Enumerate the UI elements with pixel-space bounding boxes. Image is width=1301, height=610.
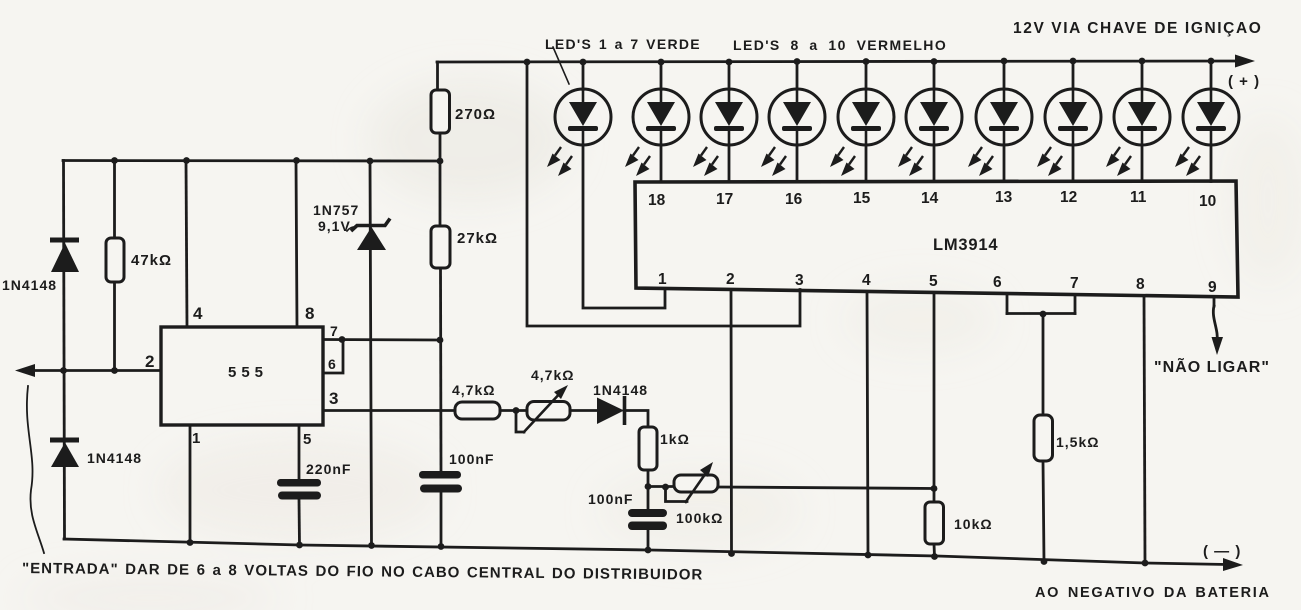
svg-text:4: 4: [193, 304, 203, 323]
node 4,7k junction: [513, 407, 520, 414]
svg-text:3: 3: [329, 389, 338, 408]
LED D1: [547, 89, 611, 176]
node rail pin4: [865, 552, 872, 559]
trimpot 100k: [674, 462, 718, 503]
svg-text:100kΩ: 100kΩ: [676, 510, 723, 526]
svg-text:270Ω: 270Ω: [455, 106, 496, 123]
svg-text:AO NEGATIVO DA BATERIA: AO NEGATIVO DA BATERIA: [1035, 585, 1271, 601]
svg-text:9: 9: [1208, 279, 1217, 296]
node 100k wiper: [662, 484, 669, 491]
wire LM3914 pin2 to ground rail: [730, 290, 733, 554]
node pin9 arrowhead: [1212, 337, 1224, 355]
wire 9,1V label pointer: [347, 226, 357, 231]
wire bottom ground rail: [64, 539, 1226, 565]
wire 555 pin1 down: [189, 425, 192, 543]
svg-text:1: 1: [658, 271, 667, 288]
svg-text:4,7kΩ: 4,7kΩ: [452, 382, 495, 398]
wire LM3914 pin7 stub: [1074, 295, 1077, 314]
svg-text:18: 18: [648, 192, 666, 209]
wire zener branch x=370: [370, 161, 372, 545]
capacitor 100nF left: [419, 471, 462, 493]
resistor 4,7k fixed: [455, 402, 500, 419]
node bottom rail arrow (-): [1223, 558, 1243, 571]
svg-text:"NÃO LIGAR": "NÃO LIGAR": [1154, 356, 1270, 376]
node top rail arrow (+): [1235, 55, 1255, 68]
wire 270 to 27k: [439, 133, 442, 226]
node rail led6: [931, 58, 938, 65]
IC U2 LM3914 box: [635, 181, 1238, 297]
LED D6: [898, 89, 962, 176]
svg-text:4: 4: [862, 272, 871, 289]
wire 555 pin6 stub: [323, 340, 343, 373]
node pin7 x440: [437, 337, 444, 344]
svg-text:8: 8: [305, 304, 314, 323]
capacitor 220nF: [277, 479, 321, 500]
svg-text:47kΩ: 47kΩ: [131, 252, 172, 269]
wire 555 pin5 to 220nF: [298, 425, 301, 480]
wire left vertical branch x=63: [64, 161, 65, 540]
wire top rail left corner drop to 270 ohm: [436, 62, 439, 91]
555 pin numbers: [145, 304, 338, 448]
resistor 1k: [639, 427, 657, 470]
svg-text:16: 16: [785, 191, 803, 208]
svg-text:3: 3: [795, 272, 804, 289]
diode D11 1N4148 upper left: [50, 238, 79, 273]
wire between 4,7k resistor and trimmer: [500, 409, 527, 412]
node pin2 diode: [60, 367, 67, 374]
resistor 1,5k: [1034, 415, 1053, 461]
node 1k junction: [645, 483, 652, 490]
wire 100k trimmer wiper return: [666, 487, 688, 502]
svg-text:14: 14: [921, 190, 939, 207]
node rail 10k: [931, 553, 938, 560]
node rail led7: [1001, 58, 1008, 65]
wire 100nF to rail: [647, 530, 650, 550]
wire 100k trimmer to pin5 junction: [718, 487, 934, 489]
svg-text:1N4148: 1N4148: [2, 277, 57, 293]
wire 10k to rail: [933, 544, 936, 557]
node rail pin2: [728, 550, 735, 557]
LED D8: [1037, 89, 1101, 176]
node rail led5: [863, 58, 870, 65]
wire LM3914 pin5 down to junction: [933, 293, 936, 490]
node rail 100n-2: [645, 547, 652, 554]
LM3914 pin numbers top: [648, 189, 1216, 210]
node rail pin1: [187, 539, 194, 546]
LED D9: [1106, 89, 1170, 176]
node rail led8: [1070, 58, 1077, 65]
node rail led2: [658, 59, 665, 66]
resistor 47k: [106, 238, 124, 282]
wire 555 pin4: [186, 161, 187, 327]
wire LM3914 pin4 to ground rail: [867, 292, 868, 556]
node rail led1: [580, 59, 587, 66]
wire pin5 junction to 10k: [933, 489, 936, 502]
node rail zener: [368, 542, 375, 549]
svg-text:1,5kΩ: 1,5kΩ: [1056, 434, 1099, 450]
svg-text:10kΩ: 10kΩ: [954, 516, 993, 532]
svg-text:1N757: 1N757: [313, 202, 359, 218]
svg-text:13: 13: [995, 189, 1013, 206]
LED D3: [693, 89, 757, 176]
node rail 220n: [296, 542, 303, 549]
svg-text:1N4148: 1N4148: [87, 450, 142, 466]
wire top +12V rail: [437, 61, 1240, 62]
node rail 1,5k: [1041, 558, 1048, 565]
LED D10: [1175, 89, 1239, 176]
wire 220nF to rail: [298, 499, 301, 545]
wire 555 pin2 line with input arrow: [34, 369, 161, 372]
node rail 100n: [438, 543, 445, 550]
wire 47k branch lower: [113, 281, 116, 370]
resistor 270 ohm: [431, 90, 450, 133]
svg-text:2: 2: [145, 352, 154, 371]
diode D14 1N4148 series: [597, 396, 625, 425]
node bus pin4: [183, 157, 190, 164]
node bus pin8: [293, 157, 300, 164]
wire 555 pin7 to x=440 node: [323, 338, 440, 341]
node bus 27k: [437, 158, 444, 165]
diode D12 1N4148 lower left: [50, 438, 79, 468]
wire pin9 nao-ligar arrow: [1213, 306, 1217, 342]
wire 47k branch upper: [113, 161, 116, 238]
svg-text:100nF: 100nF: [588, 491, 633, 507]
IC U1 555 box: [161, 327, 323, 425]
wire LM3914 pin9 stub: [1213, 297, 1216, 307]
node rail pin8: [1142, 560, 1149, 567]
node rail x527: [524, 59, 531, 66]
svg-text:7: 7: [330, 323, 338, 339]
wire LM3914 pin6 stub: [1006, 294, 1009, 314]
IC labels: [228, 236, 998, 381]
wire annotation pointer to LED1: [553, 47, 569, 84]
svg-text:6: 6: [993, 274, 1002, 291]
svg-text:LM3914: LM3914: [933, 236, 998, 254]
svg-text:9,1V: 9,1V: [318, 218, 351, 234]
LED D2: [625, 89, 689, 176]
node input arrow tip: [15, 364, 35, 377]
svg-text:10: 10: [1199, 193, 1216, 210]
node rail led3: [726, 59, 733, 66]
wire 27k down through pin7 node to 100nF cap: [439, 267, 442, 472]
svg-text:6: 6: [328, 356, 336, 372]
svg-text:LED'S 1 a 7 VERDE: LED'S 1 a 7 VERDE: [545, 36, 701, 52]
capacitor 100nF right: [628, 509, 667, 530]
wire 555 pin8: [296, 161, 297, 327]
svg-text:15: 15: [853, 190, 871, 207]
svg-text:( — ): ( — ): [1203, 543, 1241, 560]
wire left bus y=160: [63, 159, 440, 162]
svg-text:1kΩ: 1kΩ: [660, 431, 690, 447]
wire trimmer wiper return: [516, 411, 524, 432]
zener D13 1N757 9,1V: [351, 219, 390, 251]
svg-text:5: 5: [929, 273, 938, 290]
svg-text:7: 7: [1070, 275, 1079, 292]
LED D7: [968, 89, 1032, 176]
node rail led4: [794, 58, 801, 65]
svg-text:1N4148: 1N4148: [593, 382, 648, 398]
svg-text:27kΩ: 27kΩ: [457, 230, 498, 247]
svg-text:11: 11: [1130, 189, 1147, 206]
wire trimmer to diode: [570, 409, 597, 412]
wire junction down to 100nF: [647, 487, 650, 509]
wire 100nF cap to bottom rail: [440, 492, 443, 547]
svg-text:8: 8: [1136, 276, 1145, 293]
svg-text:LED'S 8 a 10 VERMELHO: LED'S 8 a 10 VERMELHO: [733, 37, 947, 53]
wire 1k to junction: [647, 469, 650, 487]
node bus 47k: [111, 157, 118, 164]
resistor 27k: [431, 226, 450, 268]
svg-text:5: 5: [303, 431, 311, 448]
wire diode to 1k corner: [624, 411, 648, 428]
svg-text:4,7kΩ: 4,7kΩ: [531, 367, 574, 383]
wire 555 pin3 out: [323, 409, 455, 412]
node pin7 stub: [339, 336, 346, 343]
node bracket 6-7: [1040, 311, 1047, 318]
wire entrada squiggle: [27, 386, 44, 553]
node bus zener: [367, 158, 374, 165]
svg-text:17: 17: [716, 191, 733, 208]
svg-text:1: 1: [192, 430, 200, 447]
wire pin6-pin7 bracket: [1007, 312, 1075, 315]
trimpot 4,7k: [523, 385, 570, 433]
wire LED cathode stubs to LM3914 top pins: [661, 145, 1211, 182]
svg-text:220nF: 220nF: [306, 461, 351, 477]
svg-text:2: 2: [726, 271, 735, 288]
node pin2 47k: [111, 367, 118, 374]
svg-text:( + ): ( + ): [1228, 73, 1260, 90]
svg-text:100nF: 100nF: [449, 451, 494, 467]
node rail led10: [1208, 58, 1215, 65]
node pin5 10k: [931, 485, 938, 492]
svg-text:555: 555: [228, 364, 268, 381]
wire 1,5k to rail: [1043, 461, 1044, 562]
wire 270/27k branch: rail to 270: [439, 91, 442, 133]
resistor 10k: [925, 502, 944, 544]
LED D4: [761, 89, 825, 176]
svg-text:12: 12: [1060, 189, 1077, 206]
wire LED1 cathode to LM3914 pin1: [583, 145, 665, 308]
wire junction to 100k trimmer: [648, 485, 674, 488]
node rail led9: [1139, 58, 1146, 65]
LED D5: [830, 89, 894, 176]
wire LM3914 V+ pin3 route from top rail: [527, 62, 800, 326]
LM3914 pin numbers bottom: [658, 271, 1217, 296]
wire LED anode stubs: [583, 61, 1211, 90]
svg-text:12V VIA CHAVE DE IGNIÇAO: 12V VIA CHAVE DE IGNIÇAO: [1013, 20, 1262, 37]
wire bracket node down to 1,5k: [1042, 314, 1045, 416]
wire LM3914 pin8 to rail: [1144, 296, 1145, 564]
